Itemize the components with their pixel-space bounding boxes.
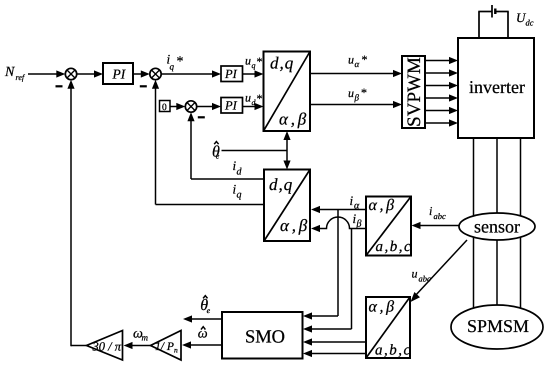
svg-text:PI: PI <box>112 67 127 82</box>
label i_d <box>233 158 243 178</box>
summing junction S2 <box>150 68 161 79</box>
svg-text:abc: abc <box>434 211 447 221</box>
PI controller PI3 (d current) <box>221 98 243 114</box>
svg-text:α,β: α,β <box>369 299 397 316</box>
wire i_alpha branch down to SMO <box>303 210 338 320</box>
svg-text:*: * <box>257 92 263 106</box>
svg-text:α,β: α,β <box>279 110 309 129</box>
wire N_ref to summing junction S1 <box>28 70 65 77</box>
label u_d* <box>245 91 263 108</box>
minus sign at S1 <box>56 85 63 87</box>
svg-text:e: e <box>207 306 211 315</box>
wire i_d feedback to S3 <box>187 112 264 179</box>
wire u_abc sensor to Clarke voltage block <box>411 240 468 302</box>
gate signal wire 3 <box>425 82 458 89</box>
label theta_e hat (transform angle) <box>212 142 220 161</box>
PI controller PI1 (speed) <box>103 63 133 84</box>
svg-text:q: q <box>237 190 242 201</box>
svg-text:d,q: d,q <box>269 175 293 194</box>
SVPWM block <box>402 56 425 128</box>
wire theta_e hat output from SMO <box>183 315 222 322</box>
svg-text:PI: PI <box>224 99 238 113</box>
gain block 30/pi <box>87 331 123 361</box>
svg-text:30 / π: 30 / π <box>92 340 122 354</box>
svg-text:e: e <box>216 152 220 161</box>
svg-text:dc: dc <box>526 18 534 28</box>
three-phase wires inverter to sensor to SPMSM <box>474 138 521 318</box>
gate signal wire 6 <box>425 119 458 126</box>
wire 0 to summing junction S3 <box>170 103 185 110</box>
label i_q <box>233 182 242 201</box>
gate signal wire 2 <box>425 69 458 76</box>
label omega_m <box>133 326 149 342</box>
svg-text:N: N <box>4 65 15 80</box>
svg-text:α,β: α,β <box>369 197 397 214</box>
svg-text:u: u <box>348 53 354 67</box>
svg-text:PI: PI <box>224 67 238 81</box>
speed feedback wire to S1 <box>67 80 86 347</box>
wire u_alpha from Clarke voltage block to SMO <box>303 338 366 345</box>
svg-text:SMO: SMO <box>245 328 285 348</box>
wire i_beta to dq transform with hop <box>311 217 366 232</box>
svg-text:abc: abc <box>419 274 432 284</box>
wire i_abc sensor to Clarke current block <box>412 222 460 229</box>
wire theta_e to both transforms <box>222 131 291 170</box>
svg-text:u: u <box>412 267 418 281</box>
svg-text:β: β <box>354 92 360 102</box>
svg-text:α: α <box>355 59 360 69</box>
svg-text:u: u <box>245 91 251 105</box>
label omega hat <box>198 326 208 341</box>
dq to alpha-beta transform block U1 <box>264 52 311 132</box>
gate signal wire 4 <box>425 94 458 101</box>
alpha-beta/abc transform block (voltages) <box>366 297 412 359</box>
wire S3 to d-axis PI controller <box>197 103 221 110</box>
wire PI1 to summing junction S2 <box>133 70 150 77</box>
inverter block <box>458 38 534 138</box>
wire PI2 to dq/alpha-beta transform <box>243 70 264 77</box>
wire i_alpha to dq transform <box>311 206 366 213</box>
svg-text:q: q <box>170 61 175 71</box>
wire i_q feedback to S2 <box>152 80 264 205</box>
svg-text:i: i <box>429 204 432 218</box>
svg-text:*: * <box>362 53 368 67</box>
svg-text:n: n <box>174 346 178 355</box>
wire S1 to speed PI controller <box>77 70 103 77</box>
constant 0 block <box>160 101 171 114</box>
dq to alpha-beta transform block 2 (feedback currents) <box>264 170 310 242</box>
svg-text:ω: ω <box>198 326 208 341</box>
minus sign at S2 <box>140 85 147 87</box>
svg-text:i: i <box>350 193 354 208</box>
svg-text:d,q: d,q <box>270 54 294 73</box>
svg-text:inverter: inverter <box>469 77 525 97</box>
svg-text:u: u <box>348 86 354 100</box>
summing junction S1 <box>65 68 76 79</box>
label U_dc <box>516 10 534 28</box>
svg-text:0: 0 <box>162 103 167 113</box>
svg-text:*: * <box>257 55 263 69</box>
svg-text:m: m <box>142 332 149 342</box>
wire PI3 to dq/alpha-beta transform <box>243 103 264 110</box>
wire i_beta branch down to SMO <box>303 229 352 333</box>
wire u_beta from Clarke voltage block to SMO <box>303 350 366 357</box>
svg-text:sensor: sensor <box>474 217 520 237</box>
label u_q* <box>245 54 263 71</box>
svg-text:a,b,c: a,b,c <box>375 343 412 359</box>
gate signal wire 1 SVPWM to inverter <box>425 57 458 64</box>
svg-text:a,b,c: a,b,c <box>376 239 413 255</box>
wire omega_m 1/Pn to 30/pi gain <box>124 342 151 349</box>
svg-text:SPMSM: SPMSM <box>467 316 529 336</box>
label i_q* <box>167 52 184 72</box>
PI controller PI2 (q current) <box>221 66 243 82</box>
label theta_e hat output <box>200 296 210 315</box>
svg-text:*: * <box>361 86 367 100</box>
wire u_beta* to SVPWM <box>310 101 402 108</box>
gate signal wire 5 <box>425 107 458 114</box>
SPMSM motor <box>451 305 543 349</box>
svg-text:SVPWM: SVPWM <box>404 57 425 127</box>
label i_abc <box>429 204 446 221</box>
alpha-beta/abc transform block (currents) <box>366 197 412 256</box>
gain block 1/Pn <box>151 331 182 361</box>
svg-text:*: * <box>177 55 184 70</box>
summing junction S3 <box>185 101 196 112</box>
wire S2 to q-axis PI controller <box>161 70 221 77</box>
node N_ref label <box>4 65 26 82</box>
minus sign at S3 <box>198 116 205 118</box>
label u_beta* <box>348 86 367 103</box>
svg-text:1/ P: 1/ P <box>155 341 174 353</box>
svg-text:α,β: α,β <box>280 216 310 235</box>
label i_beta <box>353 211 362 230</box>
DC link wires <box>478 12 508 39</box>
sensor ellipse <box>459 213 535 240</box>
label i_alpha <box>350 193 361 212</box>
wire u_alpha* to SVPWM <box>310 70 402 77</box>
label u_abc <box>412 267 432 284</box>
label u_alpha* <box>348 53 368 69</box>
SMO block <box>222 312 303 359</box>
DC source battery <box>492 5 495 18</box>
svg-text:q: q <box>252 61 256 70</box>
svg-text:u: u <box>245 54 251 68</box>
wire omega hat from SMO to 1/Pn gain <box>182 341 222 348</box>
